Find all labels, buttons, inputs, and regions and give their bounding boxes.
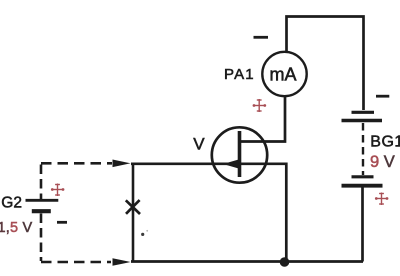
svg-text:V: V — [193, 134, 205, 153]
wire vertical with break — [132, 164, 135, 261]
wire top run: meter top to BG1 top — [287, 17, 364, 111]
dashed wire: G2 box bottom edge — [41, 261, 111, 264]
battery G2 — [26, 200, 59, 211]
arrow on bottom dashed wire — [113, 258, 131, 266]
svg-text:mA: mA — [270, 64, 297, 84]
polarity plus (red) at G2 — [51, 184, 65, 197]
svg-text:G2: G2 — [1, 194, 22, 211]
wire meter bottom to collector corner — [239, 97, 285, 142]
break mark X — [126, 200, 140, 214]
junction dot — [280, 257, 290, 267]
battery BG1 bottom cell — [342, 177, 383, 186]
svg-text:1,5 V: 1,5 V — [0, 220, 33, 236]
svg-text:BG1: BG1 — [370, 134, 400, 151]
stray scan speck — [141, 233, 144, 236]
transistor base bar — [238, 131, 242, 177]
emitter arrow — [223, 159, 240, 168]
svg-text:PA1: PA1 — [224, 66, 255, 83]
polarity minus at G2 — [57, 221, 67, 224]
dashed wire: G2 box top edge — [41, 162, 112, 165]
polarity plus (red) at BG1 bottom — [375, 193, 389, 206]
wire BG1 bottom to rail — [361, 187, 364, 262]
milliammeter PA1 — [262, 52, 306, 96]
polarity minus at BG1 top — [376, 95, 389, 98]
transistor V circle — [212, 127, 267, 182]
battery BG1 top cell — [342, 112, 383, 120]
wire emitter line: from break wire through circle to right drop — [131, 164, 286, 260]
wire bottom rail — [131, 260, 363, 263]
polarity minus at meter top — [254, 36, 269, 39]
battery BG1 cell link (dashed) — [362, 123, 364, 175]
polarity plus (red) below meter — [253, 99, 267, 112]
arrow on top dashed wire — [113, 160, 131, 168]
dashed wire: G2 box left edge lower — [40, 214, 43, 262]
svg-text:9 V: 9 V — [370, 153, 395, 171]
dashed wire: G2 box left edge upper — [40, 165, 43, 200]
